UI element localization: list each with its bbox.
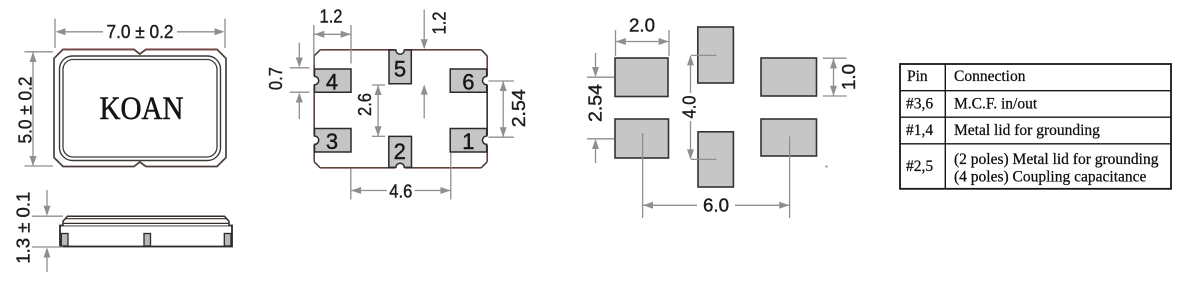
side view right terminal pad: [224, 234, 231, 247]
svg-text:7.0 ± 0.2: 7.0 ± 0.2: [107, 22, 174, 42]
dimension 4.6 (pad row span): [351, 153, 451, 201]
side view metal lid: [63, 216, 229, 225]
dimension 2.54 (side pads pitch): [489, 81, 530, 137]
svg-text:6.0: 6.0: [703, 196, 729, 216]
svg-text:1.3 ± 0.1: 1.3 ± 0.1: [14, 192, 34, 264]
dimension 2.54 (land pads pitch, left): [586, 53, 615, 163]
svg-text:1.2: 1.2: [430, 12, 450, 35]
svg-text:3: 3: [326, 129, 338, 154]
dimension 1.2 (pad 4 width): [314, 7, 351, 64]
pad 6 (bottom view top-right): [450, 69, 487, 94]
dimension 5.0±0.2 (top view height): [16, 52, 53, 166]
svg-text:Connection: Connection: [954, 68, 1026, 85]
svg-text:4: 4: [326, 69, 338, 94]
side view center terminal pad: [144, 234, 151, 247]
svg-text:0.7: 0.7: [266, 67, 286, 90]
side view base body: [60, 226, 232, 247]
table row 4 poles coupling line: [954, 168, 1147, 185]
dimension 2.6 (center pads gap): [355, 85, 385, 136]
top view lid seam outer line: [60, 56, 221, 161]
pad 1 (bottom view bottom-right): [450, 129, 487, 154]
svg-text:Pin: Pin: [907, 68, 928, 85]
table row M.C.F. in/out: [954, 95, 1038, 112]
dimension 4.0 (land center pads pitch): [680, 55, 717, 159]
top view package outline: [54, 49, 226, 166]
bottom view package outline: [314, 50, 487, 168]
table row pins 3,6: [906, 95, 933, 112]
table header Connection: [954, 68, 1026, 85]
dimension 1.0 (land pad height, right): [823, 58, 859, 96]
table row 2 poles metal lid line: [954, 151, 1159, 168]
land pattern pad bottom-left: [615, 119, 669, 158]
pad 2 (bottom view bottom-center): [389, 136, 412, 167]
svg-text:2.54: 2.54: [509, 89, 529, 127]
svg-text:4.6: 4.6: [389, 181, 412, 201]
land pattern pad bottom-center: [698, 132, 733, 187]
land pattern pad top-right: [761, 58, 817, 96]
svg-text:M.C.F. in/out: M.C.F. in/out: [954, 95, 1038, 112]
top view lid seam inner line: [63, 60, 217, 158]
svg-text:#2,5: #2,5: [906, 158, 933, 175]
svg-text:#1,4: #1,4: [906, 122, 933, 139]
dimension 6.0 (land pattern span): [643, 133, 790, 218]
pad 4 (bottom view top-left): [315, 69, 352, 94]
table row metal lid for grounding: [954, 122, 1100, 139]
side view left terminal pad: [61, 234, 68, 247]
land pattern pad bottom-right: [761, 119, 817, 156]
svg-text:5: 5: [394, 57, 406, 82]
table row pins 1,4: [906, 122, 933, 139]
stray dot artifact: [825, 165, 827, 167]
dimension 0.7 (pad 4 height): [266, 43, 310, 120]
land pattern pad top-left: [615, 58, 668, 97]
dimension 7.0±0.2 (top view width): [55, 19, 225, 49]
KOAN logo text: [100, 91, 184, 127]
svg-text:(2 poles) Metal lid for ground: (2 poles) Metal lid for grounding: [954, 151, 1159, 168]
dimension 1.2 (pad 5 depth, vertical): [421, 10, 450, 119]
svg-text:2.0: 2.0: [629, 16, 655, 36]
land pattern pad top-center: [698, 27, 734, 83]
svg-text:2.6: 2.6: [355, 93, 375, 116]
pin connection table frame: [900, 64, 1171, 189]
pad 3 (bottom view bottom-left): [315, 129, 352, 154]
svg-text:1: 1: [462, 129, 474, 154]
svg-text:KOAN: KOAN: [100, 91, 184, 127]
svg-text:1.2: 1.2: [320, 7, 343, 27]
dimension 1.3±0.1 (side view height): [14, 190, 63, 272]
svg-text:5.0 ± 0.2: 5.0 ± 0.2: [16, 77, 36, 144]
svg-text:(4 poles) Coupling capacitance: (4 poles) Coupling capacitance: [954, 168, 1147, 185]
pad 5 (bottom view top-center): [389, 50, 411, 84]
svg-text:6: 6: [462, 69, 474, 94]
svg-text:#3,6: #3,6: [906, 95, 933, 112]
table row pins 2,5: [906, 158, 933, 175]
svg-text:4.0: 4.0: [680, 96, 700, 119]
svg-text:1.0: 1.0: [839, 64, 859, 90]
table header Pin: [907, 68, 928, 85]
svg-text:2: 2: [394, 139, 406, 164]
dimension 2.0 (land pad width): [616, 16, 670, 57]
svg-text:Metal lid for grounding: Metal lid for grounding: [954, 122, 1100, 139]
svg-text:2.54: 2.54: [586, 84, 606, 122]
